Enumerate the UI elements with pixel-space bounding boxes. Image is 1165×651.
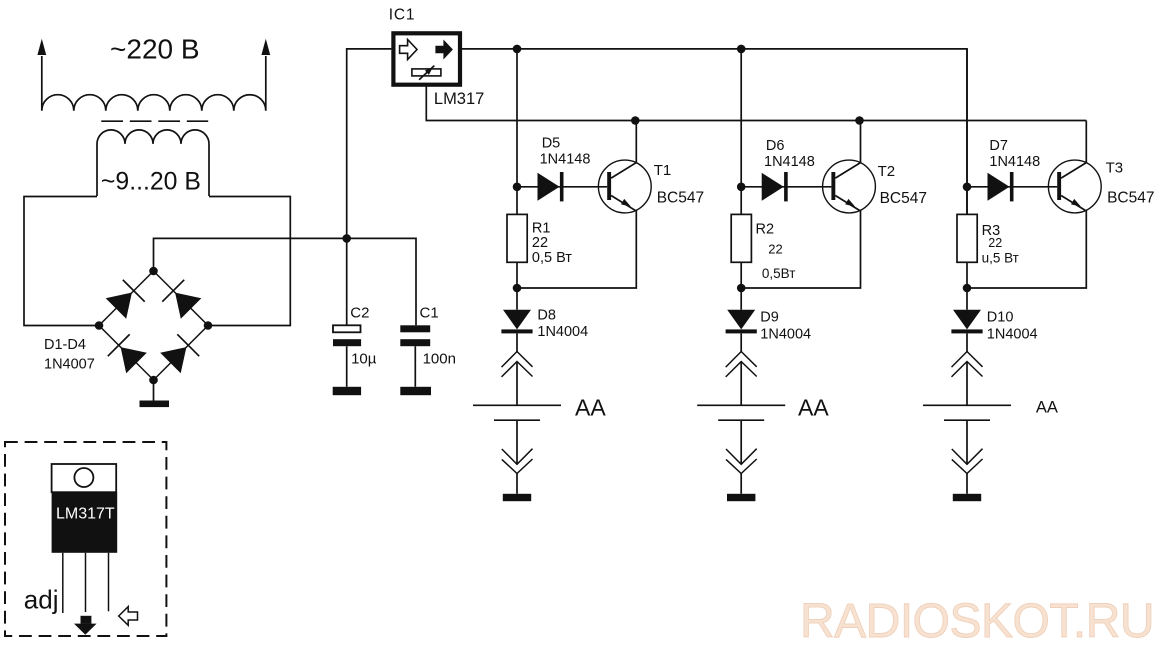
svg-text:0,5 Вт: 0,5 Вт xyxy=(532,250,572,266)
svg-text:D10: D10 xyxy=(987,310,1014,326)
svg-text:1N4007: 1N4007 xyxy=(44,356,95,372)
svg-text:D1-D4: D1-D4 xyxy=(44,337,86,353)
svg-text:D9: D9 xyxy=(760,310,779,326)
svg-text:0,5Вт: 0,5Вт xyxy=(762,266,796,281)
svg-text:IC1: IC1 xyxy=(389,7,416,24)
svg-text:1N4148: 1N4148 xyxy=(540,151,591,167)
svg-text:T1: T1 xyxy=(654,162,672,179)
svg-text:LM317: LM317 xyxy=(434,90,484,108)
svg-text:adj: adj xyxy=(24,585,59,615)
svg-text:D7: D7 xyxy=(989,138,1008,154)
svg-text:1N4148: 1N4148 xyxy=(764,154,815,170)
svg-text:RADIOSKOT.RU: RADIOSKOT.RU xyxy=(800,595,1154,648)
svg-text:C2: C2 xyxy=(350,305,369,322)
svg-text:T3: T3 xyxy=(1106,160,1124,177)
svg-text:AA: AA xyxy=(1036,398,1058,416)
svg-text:22: 22 xyxy=(988,236,1002,250)
svg-text:BC547: BC547 xyxy=(1107,190,1154,207)
svg-text:C1: C1 xyxy=(420,305,439,322)
svg-text:1N4004: 1N4004 xyxy=(537,324,588,340)
svg-text:D8: D8 xyxy=(537,307,556,323)
svg-text:100n: 100n xyxy=(423,350,456,367)
svg-text:D6: D6 xyxy=(766,138,785,154)
svg-text:1N4004: 1N4004 xyxy=(987,326,1038,342)
svg-text:R2: R2 xyxy=(756,222,775,238)
svg-text:T2: T2 xyxy=(878,163,896,180)
svg-text:10µ: 10µ xyxy=(351,350,377,367)
svg-text:22: 22 xyxy=(532,235,548,251)
svg-text:1N4148: 1N4148 xyxy=(989,154,1040,170)
svg-text:AA: AA xyxy=(575,395,606,421)
svg-text:BC547: BC547 xyxy=(657,190,704,207)
svg-text:~220 В: ~220 В xyxy=(110,33,200,64)
svg-text:BC547: BC547 xyxy=(880,190,927,207)
svg-text:LM317T: LM317T xyxy=(56,505,115,522)
svg-text:D5: D5 xyxy=(542,136,561,152)
svg-text:22: 22 xyxy=(768,242,782,257)
svg-text:~9...20 В: ~9...20 В xyxy=(101,169,201,196)
svg-text:u,5 Вт: u,5 Вт xyxy=(982,251,1019,266)
svg-text:R1: R1 xyxy=(532,220,551,236)
svg-text:AA: AA xyxy=(798,394,829,420)
svg-text:1N4004: 1N4004 xyxy=(760,326,811,342)
